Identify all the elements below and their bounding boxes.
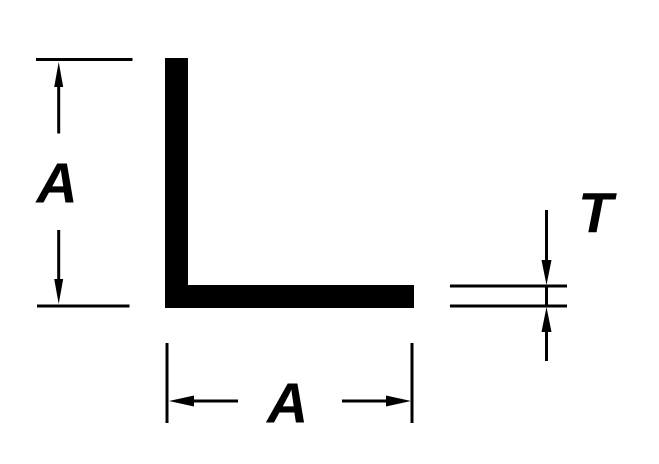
extension line top (A vertical) <box>36 58 133 61</box>
extension line right (A horizontal) <box>411 343 414 423</box>
svg-text:A: A <box>265 372 308 436</box>
dimension arrow down (T) <box>542 210 552 285</box>
extension line bottom (A vertical) <box>37 305 130 308</box>
svg-text:T: T <box>578 181 617 245</box>
dimension arrow up (T) <box>542 307 552 361</box>
dimension arrow left (A horizontal) <box>169 396 238 407</box>
dimension arrow down (A vertical) <box>54 230 63 304</box>
dimension connector (T) <box>545 286 548 306</box>
svg-text:A: A <box>35 152 78 216</box>
dimension arrow up (A vertical) <box>54 62 63 134</box>
dimension arrow right (A horizontal) <box>342 396 411 407</box>
angle profile horizontal leg <box>165 285 414 308</box>
angle profile vertical leg <box>165 58 188 308</box>
extension line left (A horizontal) <box>166 343 169 423</box>
extension line lower (T) <box>450 305 567 308</box>
extension line upper (T) <box>450 285 567 288</box>
